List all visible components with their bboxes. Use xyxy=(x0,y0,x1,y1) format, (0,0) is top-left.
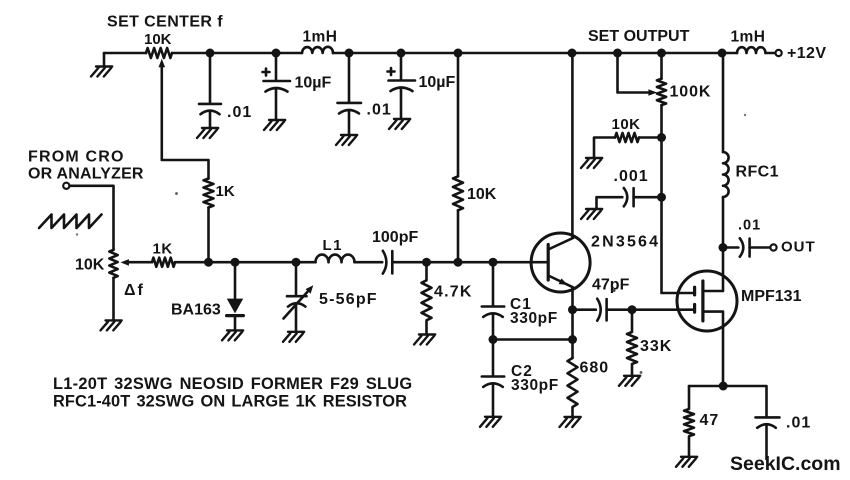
svg-text:1mH: 1mH xyxy=(731,28,766,45)
capacitor C1 330pF xyxy=(482,262,504,339)
junction rail x722 xyxy=(718,49,727,58)
channel bar xyxy=(701,281,704,321)
svg-text:SeekIC.com: SeekIC.com xyxy=(730,453,841,475)
wire 100K pot bottom down to gate 2 xyxy=(662,105,695,293)
ground left of 10K top-right xyxy=(581,158,602,168)
ground under .01 first xyxy=(197,128,218,138)
junction node .001-100K x661 y197 xyxy=(657,193,666,202)
terminal input open circle xyxy=(63,183,69,189)
junction main x208 xyxy=(204,258,213,267)
wire ground riser 10K top-right xyxy=(594,138,615,159)
svg-text:1K: 1K xyxy=(153,241,173,258)
svg-text:47pF: 47pF xyxy=(592,277,630,294)
wire 10K mid to main node xyxy=(457,210,460,262)
svg-text:.01: .01 xyxy=(227,104,252,121)
inductor L1 xyxy=(316,255,355,263)
ground under 47 xyxy=(676,457,697,467)
gate 2 bar xyxy=(693,287,696,295)
gate 1 bar xyxy=(693,305,696,313)
ground left of .001 xyxy=(581,209,602,219)
ground under 33K xyxy=(619,376,640,386)
drain lead xyxy=(703,248,723,292)
resistor 10K mid vertical xyxy=(453,176,463,210)
svg-text:+12V: +12V xyxy=(787,45,826,62)
junction source node xyxy=(719,382,728,391)
svg-text:5-56pF: 5-56pF xyxy=(319,291,378,308)
svg-text:MPF131: MPF131 xyxy=(741,288,802,305)
svg-text:L1: L1 xyxy=(323,237,344,254)
wire .001 to 100K line xyxy=(634,196,662,199)
svg-text:330pF: 330pF xyxy=(510,310,558,327)
ground under 10uF first xyxy=(264,120,285,130)
ground under 10uF second xyxy=(389,119,410,129)
wire top rail right segment to +12V xyxy=(766,52,776,55)
resistor 10K SET CENTER pot body xyxy=(146,48,172,58)
svg-text:2N3564: 2N3564 xyxy=(591,233,660,250)
junction rail x458 xyxy=(454,49,463,58)
capacitor .001 xyxy=(624,188,634,206)
wire rail to 100K pot xyxy=(660,53,663,79)
junction rail x401 xyxy=(397,49,406,58)
sawtooth waveform symbol xyxy=(39,215,102,229)
wire rail to 10K mid resistor xyxy=(457,53,460,176)
inductor 1mH right xyxy=(737,47,766,53)
junction rail x210 xyxy=(206,49,215,58)
svg-text:OR ANALYZER: OR ANALYZER xyxy=(28,166,144,183)
plus sign 10uF second xyxy=(388,68,395,75)
wire 1K to main node xyxy=(207,208,210,263)
terminal OUT open circle xyxy=(770,244,776,250)
svg-text:SET CENTER f: SET CENTER f xyxy=(107,13,223,30)
resistor 47 xyxy=(684,386,694,457)
svg-text:RFC1: RFC1 xyxy=(736,164,779,181)
svg-text:10µF: 10µF xyxy=(295,75,332,92)
junction rail x661 xyxy=(657,49,666,58)
wire top rail mid segment xyxy=(172,52,302,55)
capacitor .01 first bypass xyxy=(199,53,221,128)
wire rail down to RFC1 xyxy=(722,53,725,152)
wire 47pF to gate 1 xyxy=(607,308,695,311)
ground under BA163 xyxy=(222,330,243,340)
resistor 1K vertical xyxy=(204,179,214,208)
svg-text:330pF: 330pF xyxy=(511,377,559,394)
capacitor .01 output xyxy=(740,238,750,256)
svg-text:OUT: OUT xyxy=(781,239,816,256)
wiper arrow of SET CENTER pot xyxy=(159,59,166,67)
wiper arrow of 100K pot xyxy=(648,89,657,96)
svg-text:SET OUTPUT: SET OUTPUT xyxy=(588,28,690,45)
ground under 5-56pF xyxy=(283,332,304,342)
resistor 1K horizontal xyxy=(152,258,175,267)
ground top-left rail end xyxy=(103,53,106,67)
source lead xyxy=(703,312,723,386)
wire main node run 1 xyxy=(175,261,316,264)
svg-text:10K: 10K xyxy=(144,31,172,48)
junction main x493 xyxy=(489,258,498,267)
wire 10K to 100K line xyxy=(639,136,662,139)
diode BA163 xyxy=(234,262,237,298)
capacitor .01 source bypass xyxy=(756,417,780,459)
svg-text:10µF: 10µF xyxy=(419,74,456,91)
wire emitter to 47pF xyxy=(573,308,596,311)
wire main node run 3 xyxy=(392,261,548,264)
junction main x426 xyxy=(422,258,431,267)
svg-text:4.7K: 4.7K xyxy=(434,284,473,301)
junction C1-C2 x493 xyxy=(489,335,498,344)
transistor Q2 MPF131 xyxy=(677,271,737,331)
capacitor C2 330pF xyxy=(482,340,504,417)
svg-text:.001: .001 xyxy=(614,168,649,185)
svg-text:100K: 100K xyxy=(670,84,712,101)
capacitor .01 second bypass xyxy=(338,53,362,135)
wire main node run 2 xyxy=(355,261,383,264)
ground under .01 second xyxy=(336,135,357,145)
svg-text:33K: 33K xyxy=(640,338,672,355)
capacitor 10uF first electrolytic xyxy=(264,53,291,120)
wire RFC1 to drain node xyxy=(722,197,725,248)
junction rail x572 collector feed xyxy=(568,49,577,58)
junction rail x349 xyxy=(345,49,354,58)
resistor 33K xyxy=(627,310,637,376)
wire input to pot top xyxy=(70,186,114,250)
resistor 10K top-right horizontal xyxy=(615,133,639,142)
junction drain-RFC1-.01 xyxy=(719,243,728,252)
svg-text:.01: .01 xyxy=(786,415,811,432)
junction main x235 xyxy=(231,258,240,267)
speck noise dots xyxy=(175,192,178,195)
junction rail x617 wiper feed xyxy=(613,49,622,58)
svg-text:47: 47 xyxy=(700,412,720,429)
wire 100K wiper xyxy=(618,53,649,93)
wire emitter down xyxy=(571,287,574,358)
wire collector vertical xyxy=(571,53,574,238)
svg-text:10K: 10K xyxy=(612,116,641,133)
svg-text:1mH: 1mH xyxy=(303,29,338,46)
wiper arrow of input pot xyxy=(121,259,129,266)
wire pot bottom to ground xyxy=(112,278,115,321)
svg-text:10K: 10K xyxy=(467,186,497,203)
ground under C2 xyxy=(480,417,501,427)
junction 47pF-33K xyxy=(628,305,637,314)
svg-text:100pF: 100pF xyxy=(372,229,418,246)
wire pot wiper down and over to 1K xyxy=(162,65,209,179)
svg-text:1K: 1K xyxy=(216,183,235,200)
resistor 100K pot body xyxy=(657,79,666,105)
plus sign 10uF first xyxy=(263,69,270,76)
svg-text:10K: 10K xyxy=(75,257,105,274)
resistor 680 xyxy=(568,358,578,417)
svg-text:BA163: BA163 xyxy=(171,302,221,319)
transistor Q1 2N3564 xyxy=(531,233,590,292)
svg-text:680: 680 xyxy=(580,360,610,377)
capacitor 10uF second electrolytic xyxy=(389,53,416,119)
inductor RFC1 xyxy=(723,152,729,197)
svg-text:.01: .01 xyxy=(738,218,761,234)
wire ground riser .001 xyxy=(597,197,623,209)
inductor 1mH left xyxy=(302,47,333,53)
resistor 4.7K xyxy=(422,262,432,334)
junction main x458 xyxy=(454,258,463,267)
wire drain node to .01 out xyxy=(723,246,738,249)
terminal +12V open circle xyxy=(776,50,782,56)
arrow through 5-56pF xyxy=(284,292,308,319)
wire top rail left segment xyxy=(104,52,146,55)
svg-text:RFC1-40T 32SWG ON LARGE 1K RES: RFC1-40T 32SWG ON LARGE 1K RESISTOR xyxy=(53,393,407,411)
svg-text:L1-20T 32SWG NEOSID FORMER F29: L1-20T 32SWG NEOSID FORMER F29 SLUG xyxy=(53,375,412,393)
wire wiper to 1K horizontal xyxy=(129,261,153,264)
ground under input pot xyxy=(101,320,122,330)
junction emitter 47pF node xyxy=(568,305,577,314)
svg-text:Δf: Δf xyxy=(124,282,145,299)
svg-text:FROM CRO: FROM CRO xyxy=(28,149,125,166)
wire .01 to OUT xyxy=(750,246,771,249)
ground under 680 xyxy=(560,417,581,427)
wire C1C2 tie to emitter xyxy=(493,338,573,341)
wire top rail long segment xyxy=(333,52,737,55)
junction node 10K-100K x661 y137 xyxy=(657,133,666,142)
junction rail x276 xyxy=(272,49,281,58)
capacitor 100pF xyxy=(383,251,393,274)
wire source node tee xyxy=(689,386,767,416)
capacitor 47pF xyxy=(597,299,606,321)
junction main x296 xyxy=(292,258,301,267)
junction emitter tie node xyxy=(568,335,577,344)
resistor 10K input pot body xyxy=(109,250,117,278)
svg-text:.01: .01 xyxy=(367,102,392,119)
capacitor 5-56pF variable xyxy=(287,262,307,332)
ground under 4.7K xyxy=(414,335,435,345)
